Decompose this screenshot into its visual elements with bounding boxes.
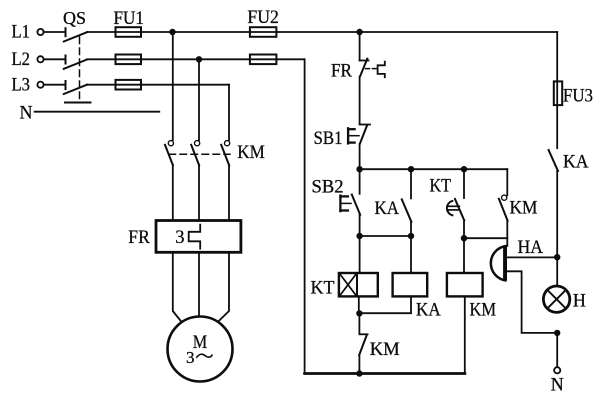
svg-text:KM: KM xyxy=(237,143,264,163)
KM main contacts mechanical link xyxy=(169,153,230,155)
terminal N xyxy=(554,367,560,373)
terminal L1 xyxy=(37,29,43,35)
svg-text:FR: FR xyxy=(331,62,353,82)
wire rung 2 (SB2/KA join) xyxy=(360,235,411,237)
wire phase C drop xyxy=(228,85,230,140)
pushbutton SB1 (NC stop) xyxy=(348,125,370,145)
fuse FU1 pole 1 xyxy=(116,27,142,37)
relay contact KA (signal NO) xyxy=(549,150,558,286)
wire heater to motor phase C xyxy=(214,252,229,325)
svg-text:KT: KT xyxy=(311,278,335,299)
node L1/phase-A junction xyxy=(169,29,175,35)
contactor KM main contact 1 xyxy=(165,141,173,221)
terminal L3 xyxy=(37,82,43,88)
terminal L2 xyxy=(37,56,43,62)
svg-text:FU1: FU1 xyxy=(114,9,145,29)
node rung1/SB2 xyxy=(356,166,362,172)
wire to N terminal xyxy=(556,333,558,367)
contactor KM main contact 3 xyxy=(221,141,230,221)
fuse FU1 pole 2 xyxy=(116,55,142,65)
wire rung 2b (KT/KM join) xyxy=(464,237,507,239)
svg-text:L3: L3 xyxy=(12,75,31,96)
wire L3 bus xyxy=(87,84,229,86)
contactor KM NC interlock contact xyxy=(359,313,367,373)
svg-text:SB1: SB1 xyxy=(314,128,343,149)
QS mechanical link xyxy=(65,37,91,103)
node lamp top / horn xyxy=(554,254,560,260)
relay contact KA (self-hold NO) xyxy=(402,169,412,236)
wire horn upper terminal xyxy=(507,256,557,258)
wire control drop from L1 xyxy=(359,32,361,60)
wire phase A drop xyxy=(172,32,174,140)
wire L1 terminal to QS xyxy=(44,31,66,33)
thermal relay FR NC contact xyxy=(360,59,369,77)
contactor KM main contact 2 xyxy=(191,141,200,221)
wire SB1 to rung xyxy=(359,144,361,169)
node rung1/KT xyxy=(461,166,467,172)
N line xyxy=(35,111,160,113)
svg-text:QS: QS xyxy=(63,8,86,28)
coil KA (relay) xyxy=(359,236,427,313)
switch QS pole 3 xyxy=(64,81,87,94)
node rung2/SB2 xyxy=(356,233,362,239)
wire L2 bus xyxy=(87,58,305,60)
node KT/KA coils join xyxy=(356,310,362,316)
FR trip linkage dashes xyxy=(366,68,377,70)
time relay contact KT (delayed) xyxy=(447,169,464,238)
svg-text:M: M xyxy=(193,332,208,353)
wire control rung 1 xyxy=(360,168,508,170)
svg-text:FR: FR xyxy=(128,228,150,248)
thermal relay FR heater box xyxy=(156,221,241,253)
pushbutton SB2 (NO start) xyxy=(340,169,360,236)
wire FR to SB1 xyxy=(359,77,361,124)
svg-text:SB2: SB2 xyxy=(312,177,344,198)
fuse FU2 pole 2 xyxy=(250,55,277,65)
wire heater to motor phase A xyxy=(173,252,185,325)
wire L1 bus xyxy=(87,31,557,33)
node rung2/KA xyxy=(408,233,414,239)
lamp H xyxy=(543,286,569,312)
coil KM (contactor) xyxy=(447,238,483,373)
motor M xyxy=(168,317,233,382)
node rung2b/KT xyxy=(461,235,467,241)
svg-text:KM: KM xyxy=(370,339,400,360)
svg-text:KA: KA xyxy=(416,300,441,321)
svg-text:KA: KA xyxy=(563,152,589,173)
horn HA xyxy=(491,245,507,280)
wire left return conductor xyxy=(304,59,306,373)
node L2/phase-B junction xyxy=(196,56,202,62)
wire L3 terminal to QS xyxy=(44,84,66,86)
wire phase B drop xyxy=(198,59,200,140)
node L1/control junction xyxy=(356,29,362,35)
svg-text:H: H xyxy=(573,291,586,312)
svg-text:HA: HA xyxy=(518,237,544,258)
svg-text:KA: KA xyxy=(375,198,400,219)
fuse FU3 xyxy=(554,81,562,105)
svg-text:KT: KT xyxy=(430,176,452,197)
coil KT (time relay) xyxy=(339,236,378,313)
wire heater to motor phase B xyxy=(198,252,200,316)
switch QS pole 2 xyxy=(64,56,87,69)
wire horn lower terminal xyxy=(507,271,557,333)
svg-text:FU2: FU2 xyxy=(247,8,279,28)
svg-text:FU3: FU3 xyxy=(563,87,593,107)
svg-text:L2: L2 xyxy=(12,49,31,70)
FR thermal release symbol xyxy=(378,62,385,77)
svg-text:N: N xyxy=(20,103,33,124)
FR heater element symbol xyxy=(189,225,201,249)
node rung1/KA xyxy=(408,166,414,172)
svg-text:KM: KM xyxy=(510,198,538,219)
node lamp bottom / horn return xyxy=(554,330,560,336)
wire L2 terminal to QS xyxy=(44,58,66,60)
svg-text:3: 3 xyxy=(175,228,184,248)
svg-text:L1: L1 xyxy=(12,22,31,43)
contactor KM auxiliary NO contact xyxy=(499,169,508,246)
svg-text:3: 3 xyxy=(186,348,195,367)
fuse FU1 pole 3 xyxy=(116,80,142,90)
fuse FU2 pole 1 xyxy=(250,27,277,37)
svg-text:KM: KM xyxy=(470,300,497,321)
switch QS pole 1 xyxy=(64,28,87,41)
wire right signal feeder xyxy=(556,32,558,148)
wire bottom return bus xyxy=(305,372,465,375)
node bus/KM-NC xyxy=(356,370,362,376)
svg-text:N: N xyxy=(551,375,564,396)
